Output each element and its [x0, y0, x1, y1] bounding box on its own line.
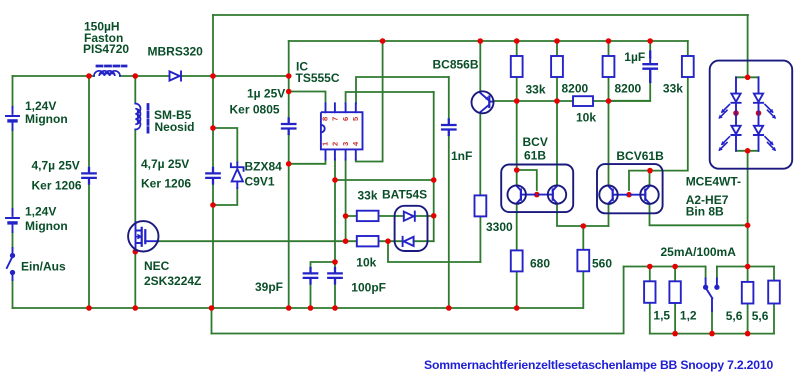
- resistor 10k feedback (horizontal): [357, 236, 379, 246]
- wire switch stubs: [706, 267, 717, 334]
- inductor L1 150uH dashed core: [97, 65, 126, 68]
- svg-text:33k: 33k: [526, 82, 546, 96]
- wire left battery column: [12, 76, 14, 308]
- svg-text:BAT54S: BAT54S: [382, 187, 427, 201]
- capacitor 4u7 right: [206, 168, 219, 184]
- inductor L1 150uH coil: [94, 71, 120, 76]
- wire 39pF branch: [311, 262, 336, 308]
- node gate row junctions: [343, 238, 349, 244]
- node ground rail junctions: [86, 305, 92, 311]
- svg-text:10k: 10k: [356, 255, 376, 269]
- svg-text:Sommernachtferienzeltlesetasch: Sommernachtferienzeltlesetaschenlampe BB…: [424, 358, 773, 372]
- transistor Q2a BCV61B inner glyph: [612, 190, 614, 200]
- wire 1,2 column: [674, 267, 676, 334]
- wire pin5 to 1nF: [356, 77, 449, 103]
- capacitor 1uF: [644, 52, 657, 83]
- MOSFET 2SK3224 inner glyph: [136, 222, 159, 250]
- wire pin2 down to 100pF and ground: [334, 160, 336, 309]
- wire 1,5 column: [649, 267, 651, 334]
- wire 5,6b column: [773, 267, 775, 334]
- resistor 33k column4: [682, 56, 694, 77]
- node output rail junctions: [647, 264, 653, 270]
- svg-text:6: 6: [341, 117, 350, 121]
- wire LED anode tee: [736, 76, 759, 78]
- transistor Q1b BCV61B inner glyph: [552, 190, 554, 200]
- wire output rail y266.5: [624, 266, 774, 268]
- wire base-10k row y101: [494, 100, 651, 102]
- wire LED feed: [747, 15, 749, 77]
- wire 33k1 column x516.7: [516, 41, 518, 186]
- wire LED return column x747.6: [747, 151, 749, 334]
- wire pin1 jog: [289, 160, 326, 164]
- svg-text:Neosid: Neosid: [155, 120, 195, 134]
- LED string left: [731, 77, 740, 151]
- wire BC856B emitter riser: [479, 41, 481, 91]
- svg-text:1µ 25V: 1µ 25V: [247, 87, 285, 101]
- transistor Q2b BCV61B inner glyph: [644, 190, 646, 200]
- transistor Q1a body circle: [508, 185, 526, 203]
- IC U1 TS555C body: [321, 112, 363, 149]
- svg-text:61B: 61B: [524, 149, 546, 163]
- node mirror ties: [514, 167, 520, 173]
- wire main rail y76: [13, 75, 289, 77]
- svg-text:Mignon: Mignon: [25, 219, 68, 233]
- package BAT54S box: [395, 206, 428, 251]
- svg-text:BCV61B: BCV61B: [616, 149, 664, 163]
- resistor 33k column1: [511, 56, 523, 77]
- svg-text:Ker 1206: Ker 1206: [32, 178, 82, 192]
- svg-text:Ker 0805: Ker 0805: [230, 103, 280, 117]
- LED string right: [754, 77, 763, 151]
- wire x433.7 feedback vertical: [433, 92, 435, 241]
- svg-text:680: 680: [530, 256, 550, 270]
- transistor BC856B body circle: [472, 91, 494, 113]
- inductor SM-B5 coil: [135, 104, 140, 130]
- transistor Q3 MOSFET body circle: [128, 221, 158, 251]
- svg-text:BCV: BCV: [523, 135, 548, 149]
- wire pair1 base tie riser: [517, 170, 537, 190]
- wire pins2-6 tie y180: [335, 179, 434, 181]
- wire branch 4u7 left: [88, 76, 90, 308]
- wire sense link x388 and y262: [388, 241, 480, 262]
- svg-text:33k: 33k: [663, 81, 683, 95]
- wire 33k2 column x687.8: [650, 41, 688, 171]
- wire pair2 left emitter: [608, 204, 610, 226]
- LED emission arrows left: [720, 105, 730, 151]
- svg-text:8: 8: [321, 117, 330, 121]
- resistor 680: [511, 250, 523, 271]
- wire 8200a column x557: [556, 41, 558, 186]
- svg-text:5,6: 5,6: [726, 309, 743, 323]
- svg-text:Ein/Aus: Ein/Aus: [21, 259, 66, 273]
- svg-text:7: 7: [330, 117, 339, 121]
- svg-text:PIS4720: PIS4720: [83, 42, 129, 56]
- wire BC856B collector to 3300 and sense: [479, 113, 481, 262]
- node 33k-diode junctions: [343, 213, 349, 219]
- wire lower ground rail y333.5: [212, 267, 624, 334]
- node VCC rail junctions: [380, 38, 386, 44]
- svg-text:C9V1: C9V1: [245, 174, 275, 188]
- resistor 8200 column2: [551, 56, 563, 77]
- wire output bottom rail: [650, 333, 774, 335]
- svg-text:25mA/100mA: 25mA/100mA: [661, 245, 737, 259]
- node 39pF tap: [332, 259, 338, 265]
- node base-10k row junctions: [514, 98, 520, 104]
- svg-text:MBRS320: MBRS320: [148, 45, 204, 59]
- capacitor 100pF: [328, 268, 341, 284]
- wire pin3 down to gate row: [345, 160, 347, 242]
- svg-text:MCE4WT-: MCE4WT-: [686, 175, 741, 189]
- node emitter junctions: [581, 223, 587, 229]
- resistor 5,6 first: [742, 282, 754, 304]
- svg-text:Ker 1206: Ker 1206: [141, 176, 191, 190]
- svg-text:1,2: 1,2: [680, 308, 697, 322]
- node rail y76 junctions: [86, 73, 92, 79]
- wire 8200b column x608.5: [608, 41, 610, 186]
- package BCV61B box second: [597, 164, 663, 213]
- wire 33k leads y216: [346, 215, 434, 217]
- resistor 1,2: [669, 281, 680, 303]
- svg-text:10k: 10k: [576, 111, 596, 125]
- resistor 3300: [475, 195, 487, 216]
- wire top outer rail V+: [213, 14, 748, 16]
- node LED string junctions: [745, 75, 751, 81]
- svg-text:560: 560: [592, 256, 612, 270]
- battery cell B1: [6, 107, 19, 130]
- svg-text:1,24V: 1,24V: [25, 205, 56, 219]
- svg-text:Bin 8B: Bin 8B: [686, 205, 724, 219]
- node pin8 VCC: [286, 89, 292, 95]
- node MOSFET source: [133, 249, 139, 255]
- wire ground stub x211.5: [211, 308, 213, 334]
- resistor 1,5: [644, 281, 655, 303]
- svg-text:2SK3224Z: 2SK3224Z: [144, 274, 201, 288]
- diode MBRS320: [170, 71, 182, 80]
- wire 680 emitter column: [516, 204, 518, 308]
- resistor 560: [577, 250, 589, 271]
- capacitor 39pF: [304, 268, 317, 284]
- resistor 10k (between 8200s): [573, 96, 593, 106]
- battery cell B2: [6, 209, 19, 232]
- svg-text:1µF: 1µF: [624, 50, 645, 64]
- capacitor 1nF: [442, 120, 455, 136]
- transistor Q2a body circle: [599, 186, 617, 204]
- wire branch SM-B5 to MOSFET drain: [134, 76, 136, 221]
- capacitor 4u7 left: [82, 168, 95, 184]
- svg-text:39pF: 39pF: [255, 280, 283, 294]
- inductor SM-B5 dashed core: [147, 105, 150, 135]
- wire MOSFET source to ground: [134, 252, 136, 308]
- svg-text:3300: 3300: [486, 220, 513, 234]
- svg-text:BZX84: BZX84: [245, 159, 283, 173]
- svg-text:2: 2: [330, 142, 339, 146]
- wire pair1 right emitter: [557, 204, 609, 226]
- switch Ein/Aus: [7, 248, 13, 280]
- svg-text:TS555C: TS555C: [296, 71, 340, 85]
- capacitor 1u Ker0805: [282, 119, 295, 135]
- wire 1uF column: [609, 41, 651, 101]
- package BCV61B box first: [501, 165, 573, 213]
- wire pair2 right collector: [649, 171, 651, 186]
- wire branch x213 with 4u7 right: [212, 15, 214, 308]
- transistor Q1a BCV61B inner glyph: [520, 190, 522, 200]
- svg-text:8200: 8200: [615, 81, 642, 95]
- svg-text:Mignon: Mignon: [25, 112, 68, 126]
- wire zener jogs: [213, 128, 237, 205]
- wire VCC rail y41: [289, 40, 688, 42]
- svg-text:NEC: NEC: [144, 259, 170, 273]
- dual diode BAT54S glyphs: [403, 212, 415, 246]
- wire VCC riser x288.7 and 1u cap column: [288, 41, 290, 308]
- wire pin4 jog to VCC riser: [356, 41, 383, 162]
- wire pair2 right emitter to LED return: [650, 204, 748, 226]
- transistor Q2b body circle: [640, 186, 658, 204]
- node output bottom junctions: [672, 331, 678, 337]
- svg-text:100pF: 100pF: [351, 281, 386, 295]
- LED emission arrows right: [765, 105, 775, 151]
- svg-text:4,7µ 25V: 4,7µ 25V: [141, 157, 189, 171]
- IC TS555C pin stubs: [326, 103, 356, 159]
- wire pin8 jog: [289, 92, 326, 104]
- wire pin6 jog over to x433.7: [346, 92, 434, 103]
- wire ground rail y308: [13, 307, 583, 309]
- wire gate row y241: [158, 240, 433, 242]
- node zener taps: [210, 125, 216, 131]
- wire 560 column: [582, 226, 584, 308]
- svg-text:1nF: 1nF: [451, 149, 472, 163]
- svg-text:1,5: 1,5: [653, 308, 670, 322]
- svg-text:5,6: 5,6: [752, 309, 769, 323]
- switch 25mA/100mA: [706, 279, 717, 312]
- svg-text:3: 3: [341, 142, 350, 146]
- resistor 8200 column3: [603, 56, 615, 77]
- svg-text:8200: 8200: [562, 81, 589, 95]
- svg-text:33k: 33k: [358, 189, 378, 203]
- node pin1 gnd link: [286, 161, 292, 167]
- transistor Q1b body circle: [548, 185, 566, 203]
- node y180 junctions: [332, 177, 338, 183]
- svg-text:BC856B: BC856B: [433, 57, 479, 71]
- resistor 33k feedback (horizontal): [357, 211, 379, 221]
- transistor BC856B inner glyph: [488, 97, 490, 107]
- wire 1nF column to ground: [448, 77, 450, 308]
- wire LED cathode tee: [736, 150, 759, 152]
- zener BZX84 C9V1: [231, 163, 244, 189]
- resistor 5,6 second: [768, 281, 780, 304]
- wire pair2 base tie riser: [629, 171, 650, 190]
- package LED MCE4WT box: [710, 61, 793, 169]
- svg-text:4,7µ 25V: 4,7µ 25V: [32, 159, 80, 173]
